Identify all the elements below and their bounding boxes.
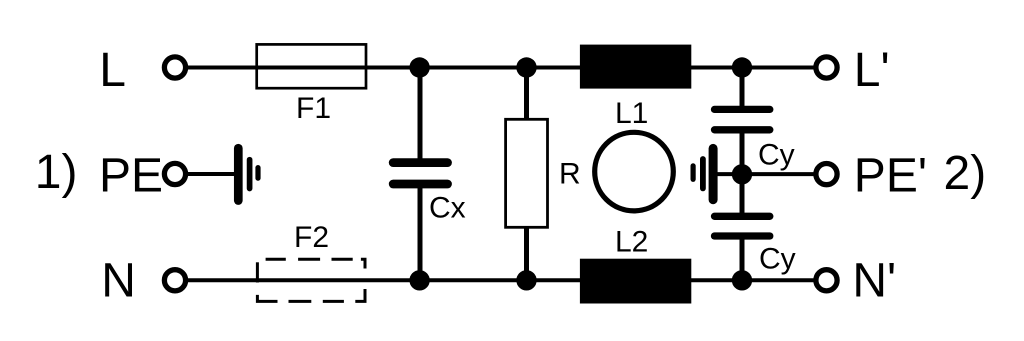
svg-text:N: N	[101, 255, 136, 308]
svg-text:L: L	[99, 44, 126, 97]
svg-text:PE: PE	[99, 149, 163, 202]
svg-text:L1: L1	[615, 97, 648, 130]
svg-text:Cy: Cy	[759, 243, 796, 276]
svg-text:L2: L2	[615, 226, 648, 259]
svg-text:F2: F2	[294, 221, 329, 254]
svg-text:Cy: Cy	[758, 139, 795, 172]
svg-text:R: R	[559, 158, 581, 191]
svg-text:2): 2)	[944, 147, 987, 200]
svg-text:1): 1)	[35, 146, 78, 199]
svg-text:Cx: Cx	[429, 191, 466, 224]
svg-text:F1: F1	[296, 92, 331, 125]
svg-text:PE': PE'	[854, 149, 927, 202]
svg-text:L': L'	[854, 44, 890, 97]
svg-text:N': N'	[852, 255, 896, 308]
